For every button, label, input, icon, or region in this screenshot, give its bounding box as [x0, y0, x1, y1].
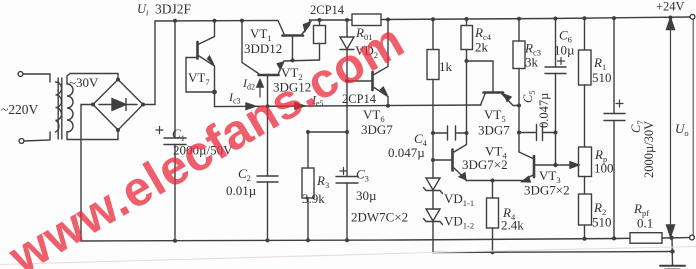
terminal AC input bottom: [19, 139, 24, 144]
node C1 top: [173, 19, 177, 23]
zener VD1-2: [426, 209, 440, 221]
transistor VT6: [371, 72, 374, 90]
node R3 bottom: [306, 238, 310, 242]
transistor VT1: [283, 34, 304, 37]
node output junction: [669, 236, 673, 240]
bus wire (VT2 base / VT7 emitter): [215, 105, 482, 107]
resistor R2 510: [579, 194, 592, 225]
svg-text:3DG7×2: 3DG7×2: [462, 157, 508, 172]
svg-text:2k: 2k: [475, 40, 489, 55]
node bridge top: [116, 78, 120, 82]
node C6 top: [554, 17, 558, 21]
svg-text:3DD12: 3DD12: [244, 41, 282, 56]
diode VD2 2CP14: [346, 20, 348, 37]
svg-text:100: 100: [594, 161, 614, 176]
wire right edge between terminals: [692, 20, 694, 236]
wire diff pair emitters: [466, 180, 522, 182]
wire top rail right of R01: [381, 17, 691, 20]
transformer T1 primary: [56, 82, 62, 132]
node C2 bottom: [266, 238, 270, 242]
node C4 right: [465, 131, 469, 135]
node R4 bottom: [491, 250, 495, 254]
svg-text:0.01µ: 0.01µ: [226, 183, 257, 198]
node C3 bottom: [345, 238, 349, 242]
resistor bleed (VT1 base): [319, 20, 321, 26]
resistor R01: [352, 14, 381, 26]
capacitor C7 2000u/30V: [613, 18, 615, 113]
node +24V arrow: [669, 16, 673, 20]
node bridge left: [91, 103, 95, 107]
node C1 bottom: [173, 239, 177, 243]
terminal output minus: [690, 235, 695, 240]
ground: [660, 265, 685, 267]
svg-text:3DJ2F: 3DJ2F: [155, 2, 192, 17]
svg-text:~220V: ~220V: [1, 102, 39, 117]
potentiometer wiper arrow: [556, 164, 577, 166]
current arrow Id2: [259, 85, 261, 97]
node Rc4 bottom / VT5 base: [465, 59, 469, 63]
wire output to ground: [671, 238, 674, 266]
svg-text:510: 510: [592, 70, 612, 85]
capacitor C4 0.047u: [433, 132, 447, 134]
wire top rail input side: [155, 20, 278, 23]
resistor R3 3.9k: [302, 168, 314, 198]
wire VT7 to bus: [214, 92, 216, 107]
node VT4 base: [431, 158, 435, 162]
svg-text:0.047µ: 0.047µ: [388, 145, 425, 160]
resistor 1k: [432, 19, 434, 49]
lower ground rail: [433, 252, 673, 253]
svg-text:510: 510: [592, 215, 612, 230]
svg-text:0.1: 0.1: [637, 216, 653, 231]
svg-text:+24V: +24V: [656, 0, 685, 14]
svg-text:2CP14: 2CP14: [310, 3, 345, 17]
svg-text:30µ: 30µ: [356, 188, 377, 203]
node R3 top: [306, 130, 310, 134]
svg-text:3.9k: 3.9k: [302, 191, 325, 206]
node VT6 collector: [386, 18, 390, 22]
node VT7 collector: [213, 19, 217, 23]
node Rc3 top: [517, 17, 521, 21]
output voltage arrow Uo: [670, 28, 672, 226]
node bridge right: [141, 103, 145, 107]
transformer T1 secondary: [67, 84, 73, 132]
resistor R1 510: [584, 18, 586, 50]
wire VT5 base: [467, 61, 494, 91]
node C7 top: [612, 16, 616, 20]
current arrow Ie5 on bus: [295, 103, 305, 110]
scan artifact line: [0, 247, 696, 265]
node C5 right: [554, 131, 558, 135]
capacitor C1: [174, 21, 176, 138]
node VT2 collector: [240, 19, 244, 23]
node R3 branch: [345, 130, 349, 134]
node C4 left: [431, 131, 435, 135]
capacitor C5 0.047u: [519, 132, 536, 134]
node C2 top on bus: [266, 104, 270, 108]
svg-text:3k: 3k: [525, 55, 539, 70]
wire secondary bottom: [67, 130, 118, 140]
transistor VT4: [451, 150, 454, 171]
terminal AC input top: [18, 72, 23, 77]
capacitor C3 30u: [336, 176, 358, 178]
node bleed resistor top: [318, 18, 322, 22]
node ground junction: [670, 249, 674, 253]
node VT1 base: [291, 58, 295, 62]
svg-text:10µ: 10µ: [554, 43, 575, 58]
bridge diode: [99, 104, 137, 106]
node VT3 base: [553, 163, 557, 167]
capacitor C6 10u: [555, 19, 557, 68]
svg-text:~30V: ~30V: [69, 75, 99, 90]
wire: [23, 74, 50, 82]
node R2 bottom: [583, 237, 587, 241]
terminal +24V: [690, 14, 695, 19]
svg-text:0.047µ: 0.047µ: [537, 93, 551, 128]
wire zener reference chain: [432, 80, 434, 179]
node VT6 emitter on bus: [386, 104, 390, 108]
resistor Rpf 0.1: [630, 233, 662, 244]
node Rc4 top: [465, 17, 469, 21]
wire secondary top: [67, 74, 118, 85]
node VT7 emitter: [212, 90, 217, 95]
wire top rail output side: [310, 19, 353, 21]
node 1k top: [431, 17, 435, 21]
wire VT1 base line: [284, 60, 320, 61]
transistor VT7: [196, 42, 199, 59]
zener VD1-1: [426, 178, 440, 190]
node R1 top: [583, 16, 587, 20]
current arrow Ic3 on bus: [246, 103, 256, 110]
node C5 left lower: [517, 131, 521, 135]
svg-text:3DG7: 3DG7: [361, 122, 393, 137]
transformer core: [57, 78, 59, 139]
bottom rail: [81, 238, 630, 241]
bridge rectifier: [93, 80, 143, 131]
node VD2 top: [345, 18, 349, 22]
node VT6 base: [345, 79, 349, 83]
svg-text:2.4k: 2.4k: [501, 218, 524, 233]
node C7 bottom: [612, 236, 616, 240]
svg-text:1k: 1k: [439, 59, 453, 74]
node bridge bottom: [116, 128, 120, 132]
capacitor C2: [267, 106, 269, 176]
wire bridge minus to ground rail: [81, 105, 93, 242]
transistor VT2: [259, 74, 279, 77]
potentiometer Rp 100: [579, 147, 592, 177]
resistor Rc3 3k: [518, 19, 520, 41]
svg-text:3DG7×2: 3DG7×2: [524, 183, 570, 198]
transistor VT3: [533, 156, 536, 177]
transistor VT5: [484, 91, 504, 94]
node R4 top: [491, 179, 495, 183]
svg-text:2000µ/30V: 2000µ/30V: [642, 121, 656, 178]
svg-text:3DG7: 3DG7: [478, 123, 510, 138]
resistor Rc4 2k: [466, 19, 468, 26]
wire R3 top: [308, 132, 347, 168]
node VT5 emitter / C5 left: [517, 104, 521, 108]
wire bridge plus to rail: [143, 21, 155, 105]
wire: [24, 132, 50, 141]
resistor R4 2.4k: [492, 181, 494, 199]
svg-text:2DW7C×2: 2DW7C×2: [351, 210, 408, 225]
